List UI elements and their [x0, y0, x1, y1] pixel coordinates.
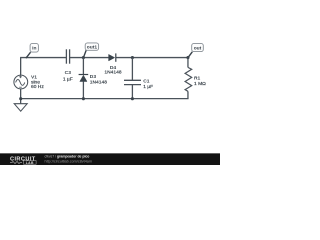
- wire C1 bottom: [131, 85, 133, 99]
- svg-text:out: out: [194, 45, 202, 51]
- wire bottom rail: [20, 98, 188, 100]
- wire top rail segment A (corner to C3): [20, 57, 66, 59]
- wire D3 bottom: [82, 82, 84, 99]
- svg-text:1 µF: 1 µF: [143, 84, 153, 90]
- node flag out: [188, 43, 203, 57]
- svg-text:D3: D3: [90, 74, 97, 80]
- junction dot out node: [186, 56, 189, 59]
- diode D4: [109, 53, 116, 61]
- wire D3 top: [82, 58, 84, 75]
- svg-text:1N4148: 1N4148: [104, 70, 121, 76]
- junction dot C1 top: [131, 56, 134, 59]
- wire top rail segment B (C3 to D4): [70, 57, 109, 59]
- junction dot D3 bottom: [82, 97, 85, 100]
- svg-text:http://circuitlab.com/c8vt4am: http://circuitlab.com/c8vt4am: [45, 159, 93, 163]
- junction dot C1 bottom: [131, 97, 134, 100]
- node flag in: [26, 43, 39, 58]
- svg-text:60 Hz: 60 Hz: [31, 84, 44, 90]
- svg-text:R1: R1: [194, 76, 201, 82]
- diode D3: [79, 75, 89, 82]
- svg-text:cfkvs7 / grampeador de pico: cfkvs7 / grampeador de pico: [45, 155, 90, 159]
- capacitor C3: [66, 49, 69, 63]
- wire R1 bottom: [187, 91, 189, 98]
- ground: [14, 99, 27, 112]
- capacitor C1: [124, 80, 141, 84]
- svg-text:1N4148: 1N4148: [90, 80, 107, 86]
- node flag out1: [83, 43, 98, 58]
- resistor R1: [185, 67, 192, 91]
- wire left vertical (top rail to V1 top): [20, 58, 22, 76]
- junction dot bottom left: [19, 97, 22, 100]
- wire C1 top: [131, 58, 133, 81]
- wire R1 top: [187, 58, 189, 68]
- wire V1 bottom: [20, 89, 22, 99]
- voltage source V1: [14, 75, 28, 89]
- svg-text:C3: C3: [65, 70, 72, 76]
- svg-text:LAB: LAB: [26, 161, 34, 165]
- svg-text:1 µF: 1 µF: [63, 76, 73, 82]
- junction dot out1 node: [82, 56, 85, 59]
- CircuitLab logo zigzag and LAB: [10, 161, 36, 165]
- wire top rail segment C (D4 to out corner): [116, 57, 189, 59]
- svg-text:in: in: [32, 46, 36, 52]
- svg-text:C1: C1: [143, 78, 150, 84]
- svg-text:1 MΩ: 1 MΩ: [194, 81, 206, 87]
- svg-text:out1: out1: [87, 45, 98, 51]
- footer bar: [0, 153, 220, 165]
